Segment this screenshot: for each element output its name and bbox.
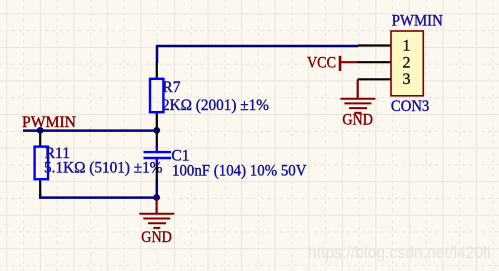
connector U: body bbox=[391, 31, 423, 96]
node B junction (R11 top) bbox=[37, 127, 44, 134]
svg-text:100nF (104) 10% 50V: 100nF (104) 10% 50V bbox=[172, 163, 307, 180]
svg-text:5.1KΩ (5101) ±1%: 5.1KΩ (5101) ±1% bbox=[44, 160, 163, 177]
power port VCC bbox=[339, 56, 342, 71]
svg-text:2KΩ (2001) ±1%: 2KΩ (2001) ±1% bbox=[162, 97, 269, 114]
svg-text:https://blog.csdn.net/l420lI: https://blog.csdn.net/l420lI bbox=[308, 244, 491, 262]
ground GND (connector pin 3) bbox=[340, 79, 375, 113]
svg-text:PWMIN: PWMIN bbox=[22, 114, 76, 131]
node GND junction (C1 bottom / R11 / ground) bbox=[153, 194, 160, 201]
resistor R7 pins bbox=[156, 62, 158, 130]
svg-text:GND: GND bbox=[141, 229, 172, 246]
svg-text:1: 1 bbox=[403, 38, 411, 55]
wire C1 bottom segment bbox=[156, 180, 159, 198]
svg-text:PWMIN: PWMIN bbox=[392, 13, 443, 30]
wire middle horizontal: PWMIN net to node A bbox=[23, 129, 157, 132]
resistor R11 body bbox=[35, 147, 48, 180]
capacitor C1 pins bbox=[156, 130, 158, 181]
svg-text:GND: GND bbox=[342, 111, 373, 128]
svg-text:2: 2 bbox=[403, 55, 411, 72]
node A junction (R7/C1/wire) bbox=[153, 127, 160, 134]
capacitor C1 body bbox=[144, 147, 172, 164]
wire bottom: R11 bottom to GND node bbox=[40, 194, 156, 198]
resistor R7 body bbox=[150, 79, 163, 112]
resistor R11 pins bbox=[39, 130, 41, 196]
svg-text:VCC: VCC bbox=[307, 54, 336, 71]
svg-text:3: 3 bbox=[403, 71, 411, 88]
svg-text:CON3: CON3 bbox=[391, 98, 430, 115]
wire top: node R7 top to connector pin 1 bbox=[157, 46, 358, 63]
ground GND (bottom) bbox=[139, 198, 174, 228]
svg-text:R7: R7 bbox=[162, 79, 180, 96]
connector pins (black stubs) bbox=[358, 46, 392, 80]
